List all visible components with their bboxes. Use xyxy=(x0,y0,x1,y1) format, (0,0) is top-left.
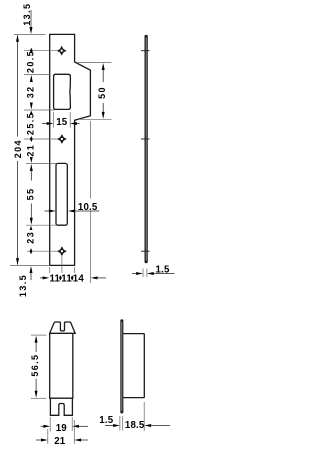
side section plate bar (bottom right) xyxy=(120,319,123,413)
side view hole tick middle xyxy=(141,138,150,140)
chain diamond at top hole xyxy=(30,48,33,54)
dim 1.5 (plate thickness, side view) xyxy=(143,269,147,278)
svg-text:50: 50 xyxy=(97,86,107,99)
dim 21 (section outer width) xyxy=(48,420,75,444)
svg-text:11: 11 xyxy=(49,273,60,284)
dim 1.5 (bottom section plate thickness) xyxy=(120,416,123,431)
dim 18.5 (box depth) xyxy=(143,402,145,431)
side view hole tick top xyxy=(141,50,150,52)
extension lines left chain xyxy=(10,34,58,265)
section bottom fork xyxy=(50,398,72,415)
dim 25.5 xyxy=(30,111,33,114)
bottom chain 11 11 14 xyxy=(40,277,106,279)
dim 15 (latch cutout width) xyxy=(53,112,70,128)
dim 23 xyxy=(30,226,33,230)
svg-text:204: 204 xyxy=(13,139,23,158)
svg-text:56.5: 56.5 xyxy=(30,354,40,377)
side section box xyxy=(123,334,144,398)
dim 32 xyxy=(30,75,33,82)
svg-text:21: 21 xyxy=(26,144,36,157)
svg-text:20.5: 20.5 xyxy=(26,50,36,73)
latch cutout (upper opening) xyxy=(54,74,71,109)
side view plate bar xyxy=(145,35,148,263)
svg-text:25.5: 25.5 xyxy=(26,112,36,135)
svg-text:13.5: 13.5 xyxy=(22,3,32,26)
dim 19 (section box width) xyxy=(50,417,72,432)
screw hole bottom xyxy=(57,246,67,256)
svg-text:13.5: 13.5 xyxy=(18,274,28,297)
deadbolt cutout (lower opening) xyxy=(56,163,67,225)
svg-text:1.5: 1.5 xyxy=(156,264,170,275)
section body rectangle xyxy=(50,333,75,398)
screw hole middle xyxy=(57,134,67,144)
svg-text:23: 23 xyxy=(25,231,35,244)
dim 10.5 (deadbolt cutout width) xyxy=(45,210,100,212)
dim 50 (lip height right side) xyxy=(77,63,112,120)
chain diamond at middle hole xyxy=(30,136,33,142)
svg-text:15: 15 xyxy=(56,117,68,128)
svg-text:1.5: 1.5 xyxy=(99,415,113,426)
dim 13.5 bottom xyxy=(30,266,33,273)
svg-text:55: 55 xyxy=(26,188,36,201)
chain diamond at bottom hole xyxy=(30,248,33,254)
svg-text:21: 21 xyxy=(54,436,66,447)
dim 13.5 top xyxy=(30,10,32,28)
bottom chain 11 11 14 extension lines xyxy=(50,121,91,283)
svg-text:14: 14 xyxy=(73,273,85,284)
dim 56.5 (section height) xyxy=(31,335,47,398)
dim 55 xyxy=(30,164,33,171)
section view top fork (bottom left) xyxy=(50,322,75,333)
svg-text:11: 11 xyxy=(61,273,72,284)
screw hole top xyxy=(57,46,67,56)
svg-text:10.5: 10.5 xyxy=(78,202,98,213)
side view hole tick bottom xyxy=(141,250,150,252)
svg-text:19: 19 xyxy=(56,423,68,434)
svg-text:32: 32 xyxy=(26,85,36,98)
dim 204 xyxy=(17,35,19,264)
front view plate outline xyxy=(50,34,91,265)
svg-text:18.5: 18.5 xyxy=(125,420,145,431)
